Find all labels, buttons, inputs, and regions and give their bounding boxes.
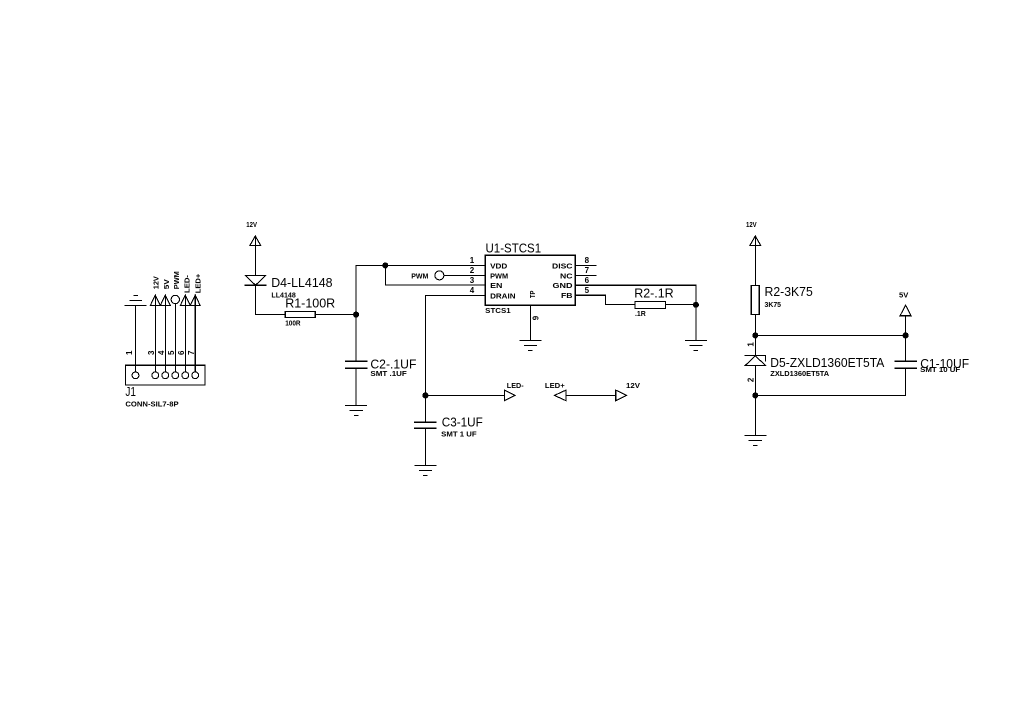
- op-amp U1 body (IC STCS1): [485, 255, 575, 305]
- svg-text:3: 3: [147, 350, 156, 355]
- svg-text:5V: 5V: [162, 279, 171, 289]
- ground (inverted, J1 pin 1 net): [125, 295, 146, 305]
- wire J1 pin6: [184, 295, 186, 372]
- wire 12V to D4: [254, 236, 256, 275]
- svg-text:PWM: PWM: [411, 271, 428, 280]
- svg-text:2: 2: [470, 266, 475, 275]
- wire VDD rail: [356, 264, 485, 266]
- wire GND (pin 6): [575, 284, 696, 286]
- wire FB (pin 5): [575, 295, 635, 304]
- svg-text:8: 8: [585, 256, 590, 265]
- svg-text:LED-: LED-: [507, 381, 524, 390]
- svg-text:D4-LL4148: D4-LL4148: [271, 276, 332, 290]
- svg-text:12V: 12V: [246, 220, 257, 229]
- wire J1 pin3: [154, 295, 156, 372]
- wire D5 anode down: [754, 365, 756, 395]
- svg-text:CONN-SIL7-8P: CONN-SIL7-8P: [125, 400, 178, 409]
- power arrow 12V (top of R2-3K75): [750, 236, 761, 245]
- junction node DRAIN/C3/LED-: [423, 393, 428, 398]
- wire R2-.1R to node: [666, 304, 696, 306]
- power arrow 5V (J1 pin 4): [160, 295, 170, 305]
- svg-text:1: 1: [747, 342, 756, 347]
- capacitor C2: [346, 361, 367, 368]
- wire R1 to node: [315, 314, 356, 316]
- svg-text:PWM: PWM: [490, 271, 508, 280]
- svg-text:6: 6: [177, 350, 186, 355]
- wire DRAIN stub: [426, 294, 486, 296]
- wire R2 to node 1: [754, 314, 756, 355]
- junction node R2/D5 cathode: [753, 333, 758, 338]
- resistor R2-3K75: [751, 286, 759, 315]
- wire C2 to ground: [355, 368, 357, 405]
- svg-text:1: 1: [470, 256, 475, 265]
- wire LED+ to 12V: [566, 394, 616, 396]
- svg-text:12V: 12V: [746, 220, 757, 229]
- wire 12V to R2-3K75: [754, 236, 756, 286]
- terminal PWM (IC pin 2): [435, 271, 444, 280]
- svg-text:SMT 10 UF: SMT 10 UF: [920, 365, 961, 374]
- svg-text:7: 7: [187, 350, 196, 355]
- svg-text:SMT .1UF: SMT .1UF: [370, 369, 407, 378]
- junction node R1/C2: [354, 312, 359, 317]
- svg-text:PWM: PWM: [172, 271, 181, 289]
- wire TP pin 9: [529, 305, 531, 340]
- connector J1 body: [125, 365, 205, 385]
- wire bottom rail: [755, 394, 905, 396]
- ground (below TP pin): [520, 340, 541, 350]
- svg-text:STCS1: STCS1: [485, 306, 510, 315]
- wire 5V to C1: [905, 316, 907, 362]
- svg-text:2: 2: [747, 377, 756, 382]
- power arrow 12V (J1 pin 3): [150, 295, 160, 305]
- svg-text:12V: 12V: [152, 276, 161, 289]
- svg-text:NC: NC: [560, 271, 573, 280]
- wire top rail: [755, 334, 905, 336]
- junction node GND/R2: [693, 302, 698, 307]
- power arrow 5V (top of C1): [900, 305, 911, 316]
- svg-text:9: 9: [531, 315, 540, 320]
- svg-text:6: 6: [585, 276, 590, 285]
- ground (below C3): [415, 465, 436, 475]
- resistor R1: [285, 311, 315, 317]
- svg-text:ZXLD1360ET5TA: ZXLD1360ET5TA: [770, 369, 829, 378]
- wire C1 bottom to rail: [905, 368, 907, 395]
- diode D4: [245, 275, 266, 285]
- svg-text:.1R: .1R: [635, 309, 647, 318]
- svg-text:7: 7: [585, 266, 590, 275]
- wire node to C2: [355, 315, 357, 362]
- svg-text:GND: GND: [553, 281, 573, 290]
- svg-text:D5-ZXLD1360ET5TA: D5-ZXLD1360ET5TA: [770, 356, 885, 370]
- svg-text:SMT 1 UF: SMT 1 UF: [441, 429, 477, 438]
- svg-text:R2-.1R: R2-.1R: [634, 286, 674, 300]
- junction node D5 anode/rail: [753, 393, 758, 398]
- svg-text:4: 4: [157, 350, 166, 355]
- wire D5 to ground: [754, 395, 756, 435]
- svg-text:TP: TP: [528, 290, 537, 298]
- svg-text:3K75: 3K75: [765, 300, 782, 309]
- power arrow LED+ (J1 pin 7): [190, 295, 200, 305]
- svg-text:5: 5: [167, 350, 176, 355]
- diode D5 (zener): [745, 355, 766, 365]
- svg-text:U1-STCS1: U1-STCS1: [486, 242, 542, 256]
- wire J1 pin1: [135, 305, 137, 372]
- wire to LED- terminal: [425, 394, 504, 396]
- terminal PWM (J1 pin 5): [171, 295, 179, 303]
- svg-text:VDD: VDD: [490, 261, 507, 270]
- wire DISC stub (pin 8): [575, 264, 595, 266]
- wire J1 pin5: [174, 304, 176, 372]
- wire J1 pin7: [194, 295, 196, 372]
- svg-text:4: 4: [470, 286, 475, 295]
- svg-text:5V: 5V: [899, 291, 909, 300]
- svg-text:1: 1: [125, 350, 134, 355]
- power arrow LED- (J1 pin 6): [180, 295, 190, 305]
- capacitor C3: [415, 422, 436, 428]
- svg-text:DRAIN: DRAIN: [490, 291, 515, 300]
- ground (right of IC): [685, 340, 706, 350]
- junction node 5V/C1: [903, 333, 908, 338]
- junction node VDD/EN: [383, 263, 388, 268]
- terminal arrow 12V (mid): [616, 390, 627, 401]
- svg-text:R2-3K75: R2-3K75: [765, 285, 813, 299]
- svg-text:DISC: DISC: [552, 261, 573, 270]
- svg-text:FB: FB: [561, 291, 573, 300]
- svg-text:LED-: LED-: [183, 274, 192, 293]
- svg-text:12V: 12V: [626, 381, 640, 390]
- svg-text:LED+: LED+: [193, 274, 202, 294]
- resistor R2-.1R: [635, 302, 666, 309]
- wire NC stub (pin 7): [575, 274, 595, 276]
- wire node up to VDD rail: [355, 265, 357, 314]
- svg-text:LED+: LED+: [545, 381, 565, 390]
- svg-text:J1: J1: [125, 385, 136, 399]
- svg-text:5: 5: [585, 286, 590, 295]
- wire GND down: [695, 285, 697, 340]
- wire J1 pin4: [164, 295, 166, 372]
- wire node to C3: [424, 395, 426, 422]
- power arrow 12V (top of D4): [250, 236, 261, 245]
- svg-text:R1-100R: R1-100R: [285, 296, 335, 310]
- wire EN drop: [384, 265, 386, 285]
- wire DRAIN drop: [425, 295, 427, 395]
- terminal arrow LED+: [554, 390, 566, 401]
- wire D4 to R1: [254, 285, 256, 314]
- wire C3 to ground: [424, 428, 426, 465]
- capacitor C1: [895, 361, 916, 368]
- terminal arrow LED-: [504, 390, 515, 401]
- svg-text:C3-1UF: C3-1UF: [442, 416, 483, 430]
- svg-text:EN: EN: [490, 281, 502, 290]
- svg-text:100R: 100R: [285, 318, 301, 327]
- ground (below D5): [745, 435, 766, 445]
- svg-text:3: 3: [470, 276, 475, 285]
- ground (below C2): [346, 405, 367, 415]
- wire PWM stub: [444, 274, 485, 276]
